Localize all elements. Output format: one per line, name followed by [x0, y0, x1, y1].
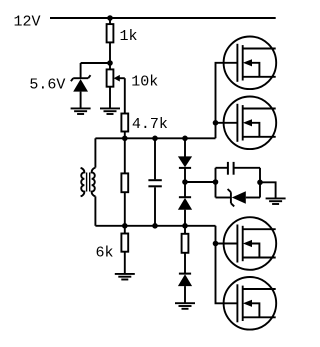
wire node B to clamp loop [185, 181, 216, 183]
diode D3 (lower, pointing up) [178, 197, 192, 226]
junction dot bus2 x=185 [182, 223, 188, 229]
clamp loop left wire [215, 168, 217, 198]
junction dot gate rail Q3 [213, 241, 219, 247]
MOSFET Q1 [224, 37, 277, 90]
zener diode D1 5.6V [71, 63, 91, 108]
wire wiper to R3 [124, 78, 126, 113]
svg-text:5.6V: 5.6V [29, 76, 65, 93]
svg-text:6k: 6k [96, 244, 114, 261]
junction dot clamp right [257, 180, 263, 186]
wire rail to R1 [109, 18, 111, 24]
svg-text:4.7k: 4.7k [132, 116, 168, 133]
wire node A to zener branch [81, 62, 110, 64]
ground below zener D1 [71, 108, 91, 114]
wire to Q3 gate [216, 243, 238, 245]
MOSFET Q3 [224, 217, 277, 270]
wire bus1 [95, 137, 215, 139]
capacitor C1 [148, 138, 161, 226]
ground right of clamp [266, 198, 286, 204]
zener diode D4 (pointing left) [216, 189, 261, 206]
MOSFET Q4 [224, 277, 277, 330]
resistor R6 (right bottom branch) [182, 226, 189, 273]
ground below potentiometer R2 [100, 108, 120, 114]
MOSFET Q2 [224, 97, 277, 150]
wire R3 to bus1 [124, 132, 126, 139]
wire bus2 [95, 225, 215, 227]
wire R1 to node A [109, 42, 111, 63]
svg-text:10k: 10k [131, 73, 158, 90]
wire 12V rail [50, 17, 276, 19]
junction dot on 12V rail at R1 top [107, 15, 113, 21]
resistor R3 4.7k [121, 114, 128, 132]
capacitor C2 [216, 162, 261, 175]
resistor R1 1k [107, 24, 114, 42]
junction dot clamp left [213, 179, 219, 185]
resistor R5 6k [121, 226, 128, 274]
resistor R4 (middle branch) [121, 138, 128, 226]
junction dot bus2 x=124.8 [122, 223, 128, 229]
wire gate rail top (bus1 up to Q1 gate) [216, 63, 238, 139]
junction dot node A [107, 60, 113, 66]
junction dot bus1 x=155 [152, 136, 158, 142]
diode D2 (upper, pointing down) [178, 138, 192, 197]
svg-text:1k: 1k [120, 28, 138, 45]
diode D5 (pointing up) [178, 274, 192, 303]
junction dot node B (between diodes) [182, 179, 188, 185]
potentiometer R2 10k [107, 63, 125, 108]
ground below D5 [175, 303, 195, 309]
junction dot bus1 x=185 [182, 136, 188, 142]
junction dot bus1 x=124.8 [122, 136, 128, 142]
wire gate rail bottom (bus2 down to Q4 gate) [216, 226, 238, 303]
svg-text:12V: 12V [14, 13, 41, 30]
wire clamp to ground [260, 182, 276, 198]
wire to Q2 gate [216, 122, 238, 124]
ground below R5 [115, 274, 135, 280]
transformer T1 [81, 138, 96, 226]
junction dot gate rail Q2 [213, 120, 219, 126]
clamp loop right wire [259, 168, 261, 198]
junction dot bus2 x=155 [152, 223, 158, 229]
